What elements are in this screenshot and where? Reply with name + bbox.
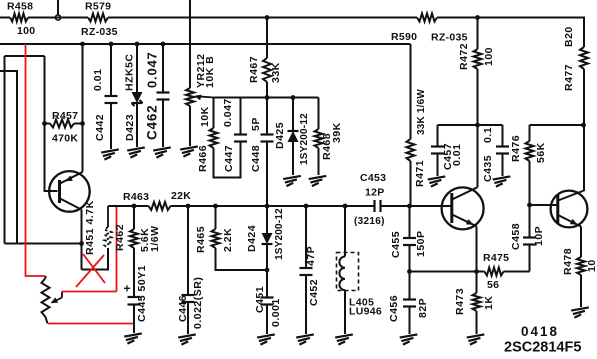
- node junction bus1/R467: [265, 15, 270, 20]
- svg-text:0.047: 0.047: [222, 98, 234, 127]
- svg-text:0.1: 0.1: [482, 127, 494, 143]
- ground C445: [124, 333, 142, 343]
- resistor R590: [391, 14, 468, 44]
- svg-text:10K B: 10K B: [204, 56, 216, 88]
- capacitor C451 0.001: [254, 270, 282, 334]
- ground C462: [153, 147, 171, 157]
- svg-text:22K: 22K: [171, 190, 191, 202]
- svg-text:C442: C442: [94, 114, 106, 141]
- wire Q2 collector column: [583, 125, 585, 191]
- node junction emitter/R473: [474, 269, 479, 274]
- wire collector down: [81, 210, 83, 270]
- wire R476 top rail: [530, 124, 584, 126]
- resistor R451 (deleted) 4.7K: [82, 200, 112, 269]
- svg-text:LU946: LU946: [349, 306, 382, 318]
- capacitor C435 0.1: [482, 125, 509, 182]
- node junction R457 left: [42, 121, 47, 126]
- svg-text:0.022(SR): 0.022(SR): [192, 277, 204, 329]
- svg-text:2.2K: 2.2K: [222, 228, 234, 252]
- wire emitter rail: [410, 271, 485, 273]
- node junction emitter-node: [79, 241, 84, 246]
- svg-text:1SY200-12: 1SY200-12: [299, 113, 310, 165]
- svg-text:10P: 10P: [533, 226, 545, 246]
- svg-text:39K: 39K: [331, 122, 343, 143]
- svg-text:1K: 1K: [483, 296, 495, 310]
- svg-text:0.001: 0.001: [270, 298, 282, 327]
- svg-text:C448: C448: [250, 145, 262, 172]
- svg-text:C452: C452: [308, 279, 320, 306]
- ground R473: [467, 334, 485, 344]
- node junction collector/R472: [475, 123, 480, 128]
- wire lower rail mid: [171, 205, 374, 207]
- svg-text:R462: R462: [114, 224, 126, 251]
- inductor L405 LU946 (shielded): [337, 206, 383, 334]
- svg-text:0.01: 0.01: [451, 144, 463, 166]
- svg-text:10: 10: [586, 259, 597, 272]
- svg-text:100: 100: [17, 25, 35, 37]
- capacitor C445 50Y1 (electrolytic): [124, 265, 149, 333]
- wire input A (to base network): [5, 56, 45, 244]
- wire lower rail left: [108, 205, 149, 207]
- wire emitter node horizontal: [5, 243, 82, 245]
- wiper arrow of YR212: [194, 95, 214, 101]
- svg-text:R475: R475: [483, 252, 509, 264]
- svg-text:C458: C458: [510, 223, 522, 250]
- node junction rail/R462: [132, 204, 137, 209]
- svg-text:R457: R457: [52, 110, 78, 122]
- resistor R457: [45, 110, 83, 145]
- svg-text:33K 1/6W: 33K 1/6W: [416, 89, 427, 135]
- node junction R477-column/rail: [581, 123, 586, 128]
- resistor R467 33K: [248, 18, 282, 98]
- node junction bus2/C442: [109, 42, 114, 47]
- label 2SC2814F5: [504, 340, 581, 356]
- svg-text:R478: R478: [562, 248, 574, 275]
- ground YR212: [180, 146, 198, 156]
- wire second bus: [0, 43, 411, 45]
- svg-text:R590: R590: [391, 31, 417, 43]
- resistor R476 56K: [510, 125, 547, 205]
- ground C457: [428, 176, 446, 186]
- capacitor C442 0.01: [92, 44, 118, 149]
- ground R478: [571, 307, 589, 317]
- ground D423: [127, 147, 145, 157]
- svg-text:10K: 10K: [199, 106, 211, 127]
- ground C446: [178, 334, 196, 344]
- node junction rail/C446: [186, 204, 191, 209]
- svg-text:150P: 150P: [415, 230, 427, 257]
- svg-text:R463: R463: [123, 191, 149, 203]
- svg-text:D424: D424: [246, 225, 258, 252]
- node junction rail/D424: [265, 204, 270, 209]
- transistor Q2 2SC2814: [551, 191, 588, 228]
- node open-circle junction on top bus: [55, 0, 60, 20]
- wire lower rail right: [382, 205, 453, 207]
- wire bus1 corner to R477: [584, 17, 585, 19]
- resistor R466 10K: [197, 98, 241, 178]
- ground C442: [101, 149, 119, 159]
- svg-text:C456: C456: [388, 295, 400, 322]
- svg-text:0418: 0418: [521, 324, 559, 339]
- resistor R478 10: [562, 227, 597, 308]
- svg-text:33K: 33K: [270, 62, 282, 83]
- diode D424 1SY200-12 (varactor): [246, 206, 285, 270]
- ground C456: [400, 334, 418, 344]
- wire mid rail: [214, 97, 319, 99]
- resistor R471 33K 1/6W: [407, 44, 428, 206]
- node junction R476/C458/Q2-base: [527, 203, 532, 208]
- node junction mid-rail/D425: [291, 95, 296, 100]
- potentiometer VR (external): [42, 276, 63, 324]
- red wire from wiper to R462 node: [62, 206, 117, 292]
- node junction bus1/R472: [475, 15, 480, 20]
- svg-text:C453: C453: [360, 172, 386, 184]
- svg-text:C451: C451: [254, 286, 266, 313]
- svg-text:0.01: 0.01: [92, 69, 104, 91]
- svg-text:47P: 47P: [305, 246, 317, 266]
- svg-text:82P: 82P: [417, 298, 429, 318]
- svg-text:56: 56: [487, 279, 499, 291]
- svg-text:R465: R465: [195, 226, 207, 253]
- red wire from potentiometer bottom to C445 ground: [48, 323, 134, 325]
- diode D425 1SY200-12: [274, 98, 310, 176]
- svg-text:(3216): (3216): [354, 216, 385, 227]
- resistor R463 22K: [123, 190, 191, 210]
- svg-text:C445 50Y1: C445 50Y1: [136, 265, 148, 322]
- svg-text:D425: D425: [274, 122, 286, 149]
- capacitor C456 82P: [388, 272, 429, 335]
- svg-text:R467: R467: [248, 56, 260, 83]
- svg-text:1SY200-12: 1SY200-12: [274, 208, 285, 260]
- svg-text:C446: C446: [177, 295, 189, 322]
- capacitor C457 0.01: [431, 125, 463, 176]
- red X deletion mark over R451: [76, 254, 105, 287]
- resistor R475 56: [483, 252, 530, 291]
- svg-text:470K: 470K: [52, 133, 78, 145]
- svg-text:R472: R472: [458, 43, 470, 70]
- svg-text:2SC2814F5: 2SC2814F5: [504, 340, 581, 356]
- svg-text:R477: R477: [563, 64, 575, 91]
- node junction rail/R465: [213, 204, 218, 209]
- svg-text:D423: D423: [124, 114, 136, 141]
- svg-text:B20: B20: [563, 26, 575, 47]
- svg-text:12P: 12P: [365, 187, 385, 199]
- capacitor C448 5P: [250, 98, 274, 207]
- svg-text:+: +: [124, 282, 131, 296]
- svg-text:C455: C455: [390, 231, 402, 258]
- svg-text:100: 100: [483, 47, 495, 66]
- node junction bus2/emitter column: [80, 42, 85, 47]
- diode D423 HZK5C (zener): [124, 44, 143, 147]
- capacitor C455 150P: [390, 206, 427, 272]
- svg-text:RZ-035: RZ-035: [431, 32, 468, 44]
- node junction mid-rail/C448: [265, 95, 270, 100]
- svg-text:R579: R579: [85, 1, 111, 13]
- red wire from bus2 to potentiometer: [26, 44, 46, 276]
- svg-text:0.047: 0.047: [145, 51, 160, 88]
- ground D425: [283, 176, 301, 186]
- resistor R477 B20: [563, 18, 588, 126]
- capacitor C452 47P: [300, 206, 321, 334]
- resistor R458: [7, 1, 35, 38]
- capacitor C446 0.022(SR): [177, 206, 204, 334]
- svg-text:RZ-035: RZ-035: [81, 26, 118, 38]
- svg-text:5P: 5P: [250, 117, 262, 131]
- svg-text:56K: 56K: [535, 142, 547, 163]
- resistor R462 5.6K 1/6W: [114, 206, 161, 297]
- node junction R457 right: [80, 121, 85, 126]
- wire top supply bus segment: [0, 17, 585, 19]
- node junction emitter-wire/C456: [407, 269, 412, 274]
- svg-text:C462: C462: [145, 105, 160, 140]
- variable resistor YR212 10K B: [186, 0, 216, 146]
- capacitor C458 10P: [510, 205, 545, 272]
- svg-text:R476: R476: [510, 135, 522, 162]
- svg-text:1/6W: 1/6W: [149, 225, 161, 252]
- label 0418: [521, 324, 559, 339]
- resistor R579: [81, 1, 118, 39]
- wire base column: [45, 56, 58, 191]
- transistor Q1 2SC2814: [442, 187, 484, 229]
- vertical label D423: [124, 114, 136, 141]
- wire C457/C435 rail: [438, 124, 503, 126]
- svg-text:C435: C435: [482, 155, 494, 182]
- ground C452: [296, 334, 314, 344]
- ground C435: [493, 176, 511, 186]
- svg-text:R471: R471: [414, 160, 426, 187]
- node junction bus2/C462: [161, 42, 166, 47]
- capacitor C453 12P (3216) series: [354, 172, 386, 227]
- capacitor C462 0.047: [145, 44, 170, 147]
- node junction rail/C452: [304, 204, 309, 209]
- wire Q1 emitter column: [476, 227, 478, 272]
- wire input B (to emitter node): [0, 71, 17, 244]
- svg-text:R458: R458: [7, 1, 33, 13]
- transistor Q-left (PNP): [49, 171, 90, 212]
- svg-text:R451 4.7K: R451 4.7K: [84, 200, 96, 255]
- resistor R468 39K: [315, 98, 344, 176]
- svg-text:HZK5C: HZK5C: [124, 53, 136, 91]
- wire emitter column to bus2: [82, 44, 84, 172]
- ground R468: [309, 176, 327, 186]
- node junction bus2/D423: [135, 42, 140, 47]
- node junction rail/C455/R471: [407, 204, 412, 209]
- svg-text:C447: C447: [223, 145, 235, 172]
- node junction D424/C451: [265, 268, 270, 273]
- svg-text:R473: R473: [454, 288, 466, 315]
- resistor R465 2.2K: [195, 206, 267, 270]
- resistor R472 100: [458, 18, 495, 126]
- resistor R473 1K: [454, 272, 495, 335]
- capacitor C447 0.047: [222, 98, 247, 173]
- node junction rail/L405: [343, 204, 348, 209]
- ground L405: [335, 334, 353, 344]
- svg-text:R466: R466: [197, 145, 209, 172]
- wire Q1 collector column: [477, 125, 479, 188]
- wire Q2 base wire: [530, 204, 558, 206]
- ground C451: [257, 334, 275, 344]
